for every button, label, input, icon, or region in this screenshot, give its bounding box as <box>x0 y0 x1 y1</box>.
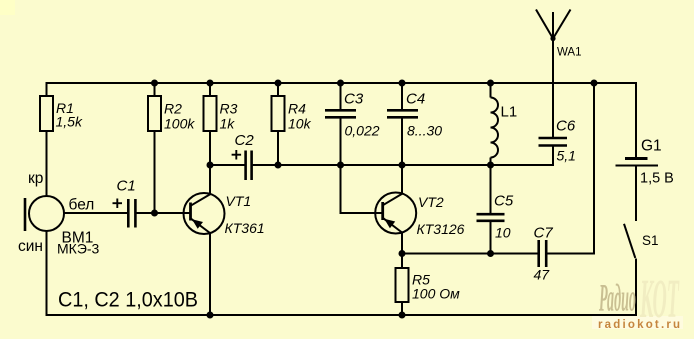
wire top bus <box>46 82 638 84</box>
C1 plus sign <box>113 199 123 209</box>
wire VT1 emitter lead <box>209 233 211 316</box>
svg-text:VT1: VT1 <box>226 193 252 209</box>
wire VT2 collector lead <box>401 165 403 194</box>
svg-text:C2: C2 <box>235 132 255 149</box>
svg-text:10: 10 <box>495 225 511 241</box>
svg-text:КТ3126: КТ3126 <box>417 221 465 237</box>
wire C4 top lead <box>401 83 403 109</box>
svg-text:C1: C1 <box>117 178 136 195</box>
corner artifact block <box>0 0 15 15</box>
wire G1 to S1 <box>635 166 637 221</box>
svg-text:1,5k: 1,5k <box>56 114 83 130</box>
svg-text:бел: бел <box>69 197 95 214</box>
svg-text:VT2: VT2 <box>418 194 444 210</box>
wire L1 top lead <box>490 83 492 98</box>
wire R3 top lead <box>209 83 211 96</box>
junction R5 bottom bus <box>399 312 406 319</box>
svg-text:1k: 1k <box>220 116 236 132</box>
transistor VT1 <box>184 193 225 234</box>
C2 plus sign <box>232 150 242 160</box>
junction VT2 collector node <box>399 162 406 169</box>
junction C1 R2 VT1 base node <box>151 210 158 217</box>
junction VT1 collector node <box>207 162 214 169</box>
junction C5 emitter rail <box>487 250 494 257</box>
wire C5 bottom lead <box>490 222 492 254</box>
svg-text:10k: 10k <box>288 116 312 132</box>
wire R1 to microphone <box>46 131 48 197</box>
svg-text:R4: R4 <box>288 101 306 117</box>
microphone BM1 <box>25 196 64 231</box>
svg-text:R2: R2 <box>164 101 182 117</box>
transistor VT2 <box>375 193 416 234</box>
capacitor C1 plates <box>128 199 135 228</box>
wire antenna down lead <box>552 39 554 138</box>
wire microphone bottom lead <box>46 231 48 317</box>
svg-text:1,5 В: 1,5 В <box>640 171 674 187</box>
wire C1 to VT1 base <box>136 212 190 214</box>
wire microphone to C1 <box>64 212 128 214</box>
svg-text:Радио: Радио <box>599 277 636 320</box>
wire VT1 collector lead <box>209 165 211 195</box>
wire mid rail right segment <box>253 164 553 166</box>
svg-text:G1: G1 <box>641 138 662 155</box>
battery G1 <box>616 159 659 166</box>
wire C6 bottom lead <box>552 147 554 167</box>
resistor R1 <box>40 96 53 131</box>
wire C3 bottom lead <box>340 119 342 166</box>
svg-text:8...30: 8...30 <box>407 123 442 139</box>
junction R4 mid rail <box>275 162 282 169</box>
capacitor C7 plates <box>539 240 547 267</box>
wire emitter rail left segment <box>402 253 538 255</box>
junction R2 top bus <box>151 80 158 87</box>
svg-text:C6: C6 <box>556 118 576 135</box>
wire R2 bottom lead <box>154 131 156 213</box>
capacitor C5 plates <box>477 214 505 221</box>
svg-text:100 Ом: 100 Ом <box>412 286 460 302</box>
capacitor C3 plates <box>325 110 356 117</box>
svg-text:L1: L1 <box>501 104 518 121</box>
wire R4 top lead <box>277 83 279 96</box>
junction C4 top bus <box>399 80 406 87</box>
wire VT2 emitter lead <box>401 233 403 254</box>
svg-text:C7: C7 <box>534 225 554 242</box>
svg-text:WA1: WA1 <box>557 47 582 59</box>
junction C3 VT2 base node <box>337 162 344 169</box>
resistor R4 <box>272 96 285 131</box>
svg-text:син: син <box>18 238 43 255</box>
svg-text:5,1: 5,1 <box>557 148 576 164</box>
junction VT1 emitter bottom bus <box>207 312 214 319</box>
wire VT2 base drop <box>341 165 383 213</box>
wire emitter rail right segment <box>547 253 595 255</box>
svg-text:0,022: 0,022 <box>345 123 380 139</box>
wire G1 top lead <box>635 82 637 158</box>
wire R3 bottom lead <box>209 131 211 165</box>
junction L1 top bus <box>487 80 494 87</box>
wire bottom bus <box>46 314 638 316</box>
wire R5 bottom lead <box>401 302 403 315</box>
svg-text:R3: R3 <box>220 101 238 117</box>
svg-text:S1: S1 <box>642 233 659 248</box>
resistor R5 <box>396 268 409 302</box>
junction feedback top bus <box>591 80 598 87</box>
svg-text:C5: C5 <box>494 193 514 210</box>
wire C4 bottom lead <box>401 119 403 166</box>
wire C3 top lead <box>340 83 342 109</box>
antenna WA1 <box>536 10 571 39</box>
junction R4 top bus <box>275 80 282 87</box>
inductor L1 <box>491 98 499 158</box>
svg-text:100k: 100k <box>164 116 195 132</box>
svg-text:кр: кр <box>28 170 43 187</box>
capacitor C2 plates <box>246 151 252 181</box>
svg-text:КТ361: КТ361 <box>225 220 265 236</box>
wire R5 top lead <box>401 254 403 269</box>
switch S1 lever <box>624 224 635 258</box>
wire L1 bottom lead <box>490 158 492 166</box>
svg-text:С1, С2 1,0х10В: С1, С2 1,0х10В <box>58 289 198 312</box>
junction R3 top bus <box>207 80 214 87</box>
wire R1 top lead <box>46 82 48 96</box>
wire S1 bottom lead <box>635 259 637 317</box>
wire R4 bottom lead <box>277 131 279 165</box>
svg-text:C3: C3 <box>344 91 364 108</box>
wire C5 top lead <box>490 165 492 213</box>
wire mid rail left segment <box>210 164 245 166</box>
junction C3 top bus <box>337 80 344 87</box>
svg-text:47: 47 <box>534 267 551 283</box>
svg-text:C4: C4 <box>406 91 425 108</box>
resistor R2 <box>148 96 161 131</box>
capacitor C6 plates <box>539 138 568 146</box>
junction VT2 emitter R5 <box>399 250 406 257</box>
capacitor C4 plates <box>387 110 418 117</box>
watermark <box>592 269 683 331</box>
wire R2 top lead <box>154 83 156 96</box>
svg-text:radiokot.ru: radiokot.ru <box>598 319 682 331</box>
wire right feedback vertical <box>593 83 595 255</box>
junction L1 C5 mid rail <box>487 162 494 169</box>
svg-text:МКЭ-3: МКЭ-3 <box>57 241 100 257</box>
resistor R3 <box>204 96 217 131</box>
